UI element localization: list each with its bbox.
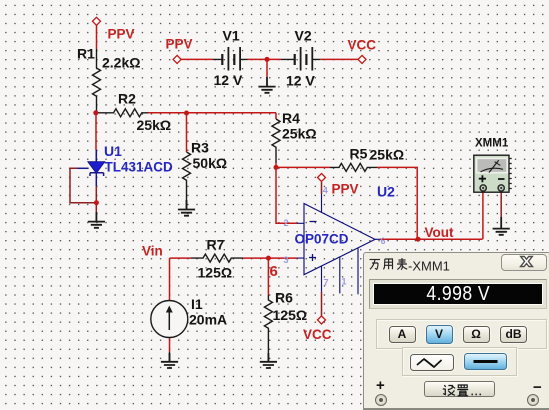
svg-text:R3: R3 — [191, 140, 209, 156]
svg-text:125Ω: 125Ω — [273, 307, 308, 323]
svg-text:50kΩ: 50kΩ — [193, 155, 228, 171]
svg-text:12 V: 12 V — [286, 73, 315, 89]
svg-text:R6: R6 — [275, 290, 293, 306]
svg-text:OP07CD: OP07CD — [295, 232, 349, 247]
svg-text:PPV: PPV — [332, 182, 359, 197]
svg-text:TL431ACD: TL431ACD — [105, 160, 174, 175]
svg-text:V1: V1 — [223, 28, 240, 44]
svg-text:125Ω: 125Ω — [198, 265, 233, 281]
svg-text:20mA: 20mA — [189, 312, 227, 328]
svg-text:U2: U2 — [377, 184, 395, 200]
svg-text:25kΩ: 25kΩ — [137, 117, 172, 133]
svg-text:R7: R7 — [207, 237, 225, 253]
svg-text:-XMM1: -XMM1 — [408, 258, 450, 271]
svg-text:VCC: VCC — [348, 38, 377, 53]
svg-text:I1: I1 — [191, 296, 203, 312]
svg-text:25kΩ: 25kΩ — [370, 147, 405, 163]
svg-text:R5: R5 — [350, 146, 368, 162]
svg-text:2.2kΩ: 2.2kΩ — [102, 55, 140, 71]
svg-text:VCC: VCC — [303, 327, 332, 342]
svg-text:1: 1 — [342, 277, 347, 287]
svg-text:U1: U1 — [104, 143, 122, 159]
svg-text:PPV: PPV — [166, 37, 193, 52]
svg-text:4: 4 — [323, 186, 328, 196]
svg-text:R4: R4 — [282, 110, 300, 126]
svg-text:3: 3 — [284, 255, 289, 265]
svg-text:12 V: 12 V — [214, 72, 243, 88]
svg-text:25kΩ: 25kΩ — [282, 126, 317, 142]
svg-text:PPV: PPV — [108, 27, 135, 42]
svg-text:R2: R2 — [118, 91, 136, 107]
svg-text:V2: V2 — [295, 28, 312, 44]
svg-text:XMM1: XMM1 — [475, 138, 509, 150]
svg-text:6: 6 — [381, 236, 386, 246]
svg-text:Vin: Vin — [142, 244, 163, 259]
svg-text:R1: R1 — [77, 46, 95, 62]
svg-text:Vout: Vout — [425, 225, 454, 240]
svg-text:7: 7 — [324, 278, 329, 288]
svg-text:2: 2 — [284, 218, 289, 228]
svg-text:6: 6 — [270, 263, 278, 280]
